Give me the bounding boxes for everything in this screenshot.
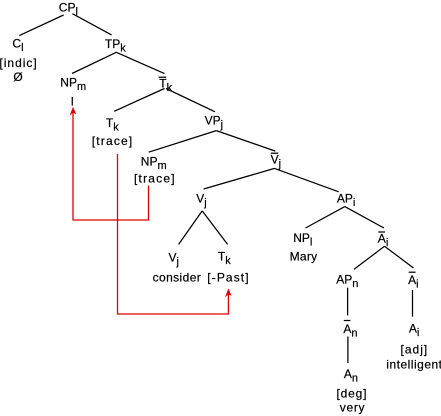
- svg-text:[trace]: [trace]: [92, 134, 134, 148]
- wire VP-Vbar: [216, 131, 275, 152]
- wire TP-NPm: [72, 52, 116, 73]
- svg-text:I: I: [71, 95, 74, 109]
- wire AP-NPl: [306, 207, 345, 228]
- wire Abarlow-Ai: [412, 290, 414, 317]
- arrowhead T: [225, 289, 232, 298]
- wire Tbar-VP: [166, 89, 215, 112]
- overline Tbar: [159, 76, 167, 78]
- wire TP-Tbar: [116, 52, 164, 73]
- overline Abar_n: [344, 320, 351, 322]
- wire VP-NPtrace: [149, 131, 217, 153]
- wire Tbar-Tk: [114, 89, 164, 112]
- svg-text:[trace]: [trace]: [134, 171, 176, 185]
- svg-text:[-Past]: [-Past]: [207, 270, 249, 284]
- arrowhead NP: [70, 107, 77, 116]
- wire Vbar-AP: [275, 168, 339, 191]
- svg-text:[indic]: [indic]: [0, 56, 38, 70]
- svg-text:very: very: [340, 400, 365, 414]
- wire CP-TP: [72, 14, 111, 35]
- overline Abar_i lower: [409, 271, 416, 273]
- svg-text:[deg]: [deg]: [337, 386, 368, 400]
- svg-text:Mary: Mary: [290, 249, 318, 263]
- wire APn-Abarn: [347, 288, 349, 316]
- wire AP-Abar: [345, 207, 384, 228]
- wire Abar-Abarlow: [385, 246, 414, 268]
- wire CP-C: [19, 15, 63, 36]
- svg-text:[adj]: [adj]: [401, 342, 429, 356]
- overline Abar_i: [378, 231, 385, 233]
- wire Abar-APn: [354, 246, 384, 269]
- wire Vj-Tkterm: [202, 211, 227, 245]
- overline Vbar: [271, 152, 279, 154]
- svg-text:consider: consider: [153, 271, 202, 285]
- wire Abarn-An: [347, 337, 349, 364]
- svg-text:Ø: Ø: [13, 70, 22, 84]
- movement arrow NP (red): [73, 111, 149, 220]
- movement arrow T (red): [118, 154, 229, 314]
- wire Vj-Vterm: [179, 211, 203, 245]
- wire Vbar-Vj: [204, 168, 275, 189]
- svg-text:intelligent: intelligent: [386, 358, 441, 372]
